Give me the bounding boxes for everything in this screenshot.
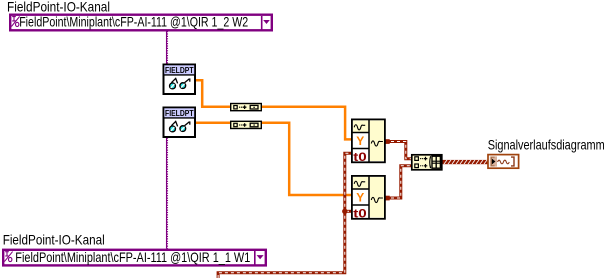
waveform chart terminal bbox=[488, 155, 519, 169]
junction: t0 wire junction at Build Waveform 2 bbox=[342, 209, 347, 214]
wire: orange DBL wire FP Read 1 -> conversion 1 bbox=[196, 80, 231, 107]
wire: waveform t0 wire from below (off-screen) to both Build Waveform t0 inputs bbox=[218, 153, 352, 278]
svg-text:FieldPoint-IO-Kanal: FieldPoint-IO-Kanal bbox=[3, 231, 105, 247]
svg-text:Signalverlaufsdiagramm: Signalverlaufsdiagramm bbox=[488, 136, 605, 152]
dropdown arrow bbox=[263, 20, 270, 24]
wire: waveform wire Build Waveform 2 output -> Merge Signals input 2 bbox=[385, 166, 412, 201]
wire: orange DBL wire conversion 1 -> Build Waveform 1 Y input bbox=[261, 107, 352, 140]
wire: dynamic-data hatched wire Merge Signals -> waveform chart terminal bbox=[442, 160, 488, 164]
svg-text:FieldPoint\Miniplant\cFP-AI-11: FieldPoint\Miniplant\cFP-AI-111 @1\QIR 1… bbox=[15, 249, 250, 265]
wire: orange DBL wire FP Read 2 -> conversion 2 bbox=[196, 121, 231, 124]
conversion node 1 bbox=[231, 104, 262, 111]
wire: purple FieldPoint-IO channel wire from constant 1 down to FP Read 1 bbox=[167, 31, 168, 64]
svg-text:FieldPoint\Miniplant\cFP-AI-11: FieldPoint\Miniplant\cFP-AI-111 @1\QIR 1… bbox=[19, 14, 248, 30]
wire: orange DBL wire conversion 2 -> Build Waveform 2 Y input bbox=[261, 123, 352, 195]
I/O glyph bbox=[11, 17, 19, 27]
I/O glyph bbox=[4, 252, 12, 262]
conversion node 2 bbox=[231, 121, 262, 128]
wire: purple FieldPoint-IO channel wire from constant 2 up to FP Read 2 bbox=[167, 138, 168, 250]
Build Waveform 2 bbox=[352, 176, 385, 220]
Build Waveform 1 bbox=[352, 119, 385, 163]
matrix grid bbox=[432, 156, 440, 168]
FieldPoint IO constant 2 (QIR 1_1 W1) bbox=[2, 249, 267, 267]
row 1 bbox=[415, 157, 419, 161]
FP Read VI 1 (FIELDPT glasses icon) bbox=[164, 65, 196, 95]
FP Read VI 2 (FIELDPT glasses icon) bbox=[164, 108, 196, 138]
row 2 bbox=[415, 164, 419, 168]
wire: waveform wire Build Waveform 1 output -> Merge Signals input 1 bbox=[385, 139, 412, 159]
bracket bbox=[429, 156, 432, 168]
svg-text:FieldPoint-IO-Kanal: FieldPoint-IO-Kanal bbox=[7, 0, 110, 14]
dropdown arrow bbox=[257, 255, 264, 259]
Merge Signals node bbox=[412, 155, 442, 170]
FieldPoint IO constant 1 (QIR 1_2 W2) bbox=[9, 14, 273, 32]
